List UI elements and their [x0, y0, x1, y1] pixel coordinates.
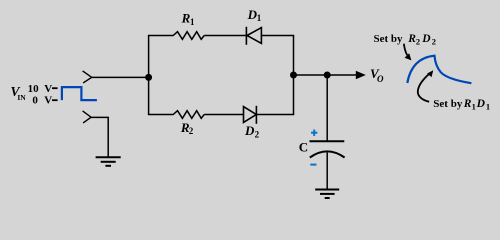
svg-text:IN: IN — [17, 93, 26, 102]
svg-text:Set by: Set by — [433, 98, 463, 110]
wire R2 to D2 — [204, 114, 243, 116]
svg-text:C: C — [299, 140, 308, 155]
node right junction dot — [290, 72, 297, 79]
input terminal arrowhead top — [83, 71, 92, 83]
node capacitor junction dot — [324, 72, 331, 79]
svg-text:D: D — [244, 123, 255, 138]
svg-text:O: O — [377, 74, 384, 84]
diode D1 cathode bar — [245, 27, 247, 45]
wire D2 to right branch — [256, 114, 294, 116]
label plus — [311, 130, 317, 136]
svg-text:0: 0 — [32, 95, 38, 107]
svg-text:R: R — [463, 98, 472, 110]
wire from bottom terminal to ground — [91, 117, 108, 157]
ground input side — [96, 157, 121, 166]
label VO — [370, 66, 384, 84]
diode D1 triangle — [247, 28, 261, 44]
right branch vertical wire — [293, 36, 295, 115]
label R2 — [180, 120, 194, 136]
svg-text:1: 1 — [472, 101, 476, 111]
svg-text:1: 1 — [190, 17, 195, 27]
left branch vertical wire — [148, 36, 150, 115]
svg-text:2: 2 — [255, 129, 260, 139]
wire bottom left segment — [148, 114, 174, 116]
svg-text:D: D — [421, 33, 431, 45]
label D1 — [247, 7, 262, 23]
svg-text:10: 10 — [28, 83, 39, 95]
diode D2 cathode bar — [255, 106, 257, 124]
output waveform curve — [407, 56, 471, 83]
output wire — [294, 74, 358, 76]
label D2 — [244, 123, 260, 139]
svg-text:1: 1 — [486, 101, 490, 111]
svg-text:R: R — [407, 33, 416, 45]
wire from input terminal to left node — [92, 76, 149, 78]
level label 0 V — [32, 95, 57, 107]
annotation arrow to rising edge — [404, 44, 412, 61]
output arrowhead — [356, 71, 366, 79]
svg-text:2: 2 — [432, 36, 436, 46]
input terminal arrowhead bottom — [83, 111, 92, 123]
capacitor C top plate — [310, 140, 345, 142]
label R1 — [181, 11, 195, 27]
source label VIN — [11, 84, 27, 102]
input pulse waveform — [62, 87, 97, 100]
resistor R2 — [173, 111, 204, 119]
svg-text:2: 2 — [416, 36, 420, 46]
wire R1 to D1 — [204, 35, 246, 37]
capacitor C curved plate — [310, 151, 345, 157]
wire capacitor to ground — [326, 153, 328, 190]
annotation text Set by R2D2 — [374, 33, 437, 47]
wire top left segment — [148, 35, 174, 37]
label minus — [310, 164, 316, 166]
svg-text:V: V — [44, 83, 52, 95]
svg-text:Set by: Set by — [374, 33, 404, 45]
annotation arrow to falling edge — [418, 70, 434, 102]
level label 10 V — [28, 83, 58, 95]
wire junction to capacitor — [326, 75, 328, 141]
svg-text:1: 1 — [257, 13, 262, 23]
svg-text:V: V — [44, 95, 52, 107]
wire D1 to right branch — [261, 35, 294, 37]
diode D2 triangle — [244, 107, 257, 123]
node left junction dot — [145, 74, 152, 81]
ground capacitor side — [315, 190, 339, 199]
annotation text Set by R1D1 — [433, 98, 490, 112]
resistor R1 — [173, 32, 204, 40]
svg-text:D: D — [476, 98, 486, 110]
svg-text:2: 2 — [189, 126, 194, 136]
